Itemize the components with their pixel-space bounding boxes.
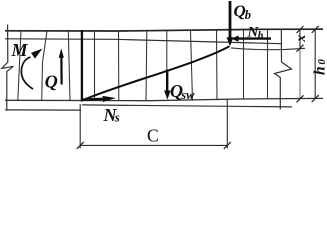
svg-text:s: s bbox=[114, 110, 120, 125]
svg-text:h: h bbox=[312, 66, 327, 75]
svg-text:x: x bbox=[294, 35, 309, 43]
svg-text:0: 0 bbox=[316, 59, 327, 65]
svg-text:C: C bbox=[147, 125, 159, 145]
svg-text:Q: Q bbox=[45, 72, 58, 92]
svg-text:b: b bbox=[245, 8, 251, 22]
svg-text:sw: sw bbox=[180, 88, 195, 102]
svg-text:M: M bbox=[11, 40, 29, 60]
svg-text:b: b bbox=[258, 29, 264, 41]
